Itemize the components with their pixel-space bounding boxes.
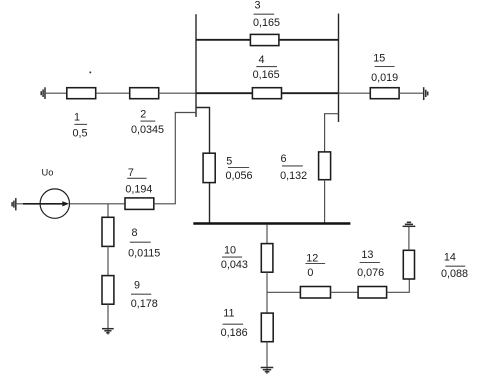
wire source to node, to R7: [70, 203, 126, 205]
svg-text:0,165: 0,165: [253, 17, 280, 29]
wire rail A to R3: [196, 39, 250, 41]
svg-text:0,043: 0,043: [221, 259, 248, 271]
resistor R3: [250, 34, 279, 45]
svg-text:5: 5: [226, 156, 232, 168]
svg-text:0,194: 0,194: [125, 184, 152, 196]
wire bus to R10: [266, 225, 268, 244]
label R2 value 2/0,0345: [131, 109, 164, 136]
svg-text:0,165: 0,165: [253, 69, 280, 81]
wire R4 to rail B: [282, 92, 339, 94]
wire rail A step down to R5: [196, 108, 210, 154]
wire R11 to ground G5: [266, 342, 268, 374]
svg-text:11: 11: [223, 308, 234, 320]
resistor R10: [261, 244, 273, 273]
wire G1 to R1: [45, 92, 67, 94]
svg-text:0,076: 0,076: [357, 267, 384, 279]
label R10 value 10/0,043: [221, 244, 248, 270]
ground G2 (right end, rotated): [424, 87, 428, 100]
label R5 value 5/0,056: [225, 156, 252, 182]
resistor R1: [67, 88, 96, 99]
resistor R12: [300, 287, 330, 299]
label R8 value 8/0,0115: [128, 227, 160, 260]
wire R15 to ground G2: [399, 92, 424, 94]
svg-text:10: 10: [224, 244, 236, 256]
stray dot: [89, 71, 91, 73]
label R3 value 3/0,165: [253, 0, 280, 29]
wire R6 to bus: [324, 180, 326, 223]
svg-text:9: 9: [134, 280, 140, 292]
label R9 value 9/0,178: [131, 280, 158, 310]
ground G4 (below R9): [102, 329, 114, 333]
source U0 (circle with arrow): [23, 189, 70, 218]
wire rail A to R4: [196, 92, 252, 94]
svg-text:0,132: 0,132: [280, 170, 307, 182]
label R1 value 1/0,5: [72, 112, 87, 140]
label R13 value 13/0,076: [357, 249, 384, 279]
svg-text:0,088: 0,088: [441, 268, 468, 280]
resistor R2: [130, 88, 159, 99]
wire R2 to rail A: [159, 92, 196, 94]
svg-text:14: 14: [444, 252, 456, 264]
wire R12 to R13: [331, 291, 359, 293]
ground G1 (left end of top line, rotated): [41, 87, 45, 99]
svg-text:2: 2: [140, 109, 146, 121]
svg-text:0,0345: 0,0345: [131, 124, 164, 136]
svg-text:6: 6: [280, 153, 286, 165]
resistor R15: [370, 88, 399, 99]
ground G3 (left of source U0, rotated): [12, 198, 16, 210]
svg-text:7: 7: [128, 167, 134, 179]
wire R10 to node C: [266, 272, 268, 313]
wire R9 to ground G4: [107, 304, 109, 334]
resistor R7: [125, 198, 154, 210]
svg-text:0,056: 0,056: [225, 170, 252, 182]
label R15 value 15/0,019: [371, 52, 398, 84]
svg-text:13: 13: [361, 249, 373, 261]
wire R1 to R2: [96, 92, 130, 94]
label R7 value 7/0,194: [125, 167, 152, 196]
svg-text:1: 1: [74, 112, 80, 124]
svg-text:0,178: 0,178: [131, 298, 158, 310]
wire R7 up-step to rail A: [154, 113, 196, 204]
svg-text:0,019: 0,019: [371, 72, 398, 84]
label R12 value 12/0: [305, 253, 325, 280]
wire node C to R12: [267, 291, 300, 293]
svg-text:15: 15: [373, 52, 385, 64]
svg-text:0,186: 0,186: [221, 327, 248, 339]
svg-text:Uo: Uo: [42, 168, 54, 178]
resistor R13: [358, 287, 387, 299]
label R6 value 6/0,132: [280, 153, 307, 182]
label R4 value 4/0,165: [253, 54, 280, 81]
wire R13 to R14: [387, 279, 410, 292]
node rail B (right vertical rail): [338, 14, 340, 122]
ground G5 (below R11): [261, 368, 274, 372]
svg-text:0: 0: [307, 267, 313, 279]
ground G6 (above R14, pointing up): [403, 222, 416, 226]
wire rail B to R15: [339, 92, 371, 94]
svg-text:12: 12: [306, 253, 318, 265]
svg-text:0,5: 0,5: [72, 128, 87, 140]
wire G3 to source: [16, 203, 40, 205]
resistor R11: [261, 313, 273, 342]
bus bar (thick node line): [193, 222, 350, 225]
resistor R4: [252, 88, 281, 99]
wire rail B step down to R6: [325, 114, 339, 152]
svg-text:8: 8: [131, 227, 137, 239]
label R14 value 14/0,088: [441, 252, 468, 280]
node rail A (left vertical rail): [195, 14, 197, 117]
wire R3 to rail B: [279, 39, 339, 41]
resistor R5: [203, 153, 215, 182]
svg-text:4: 4: [258, 54, 264, 66]
resistor R8: [102, 217, 114, 246]
wire R5 to bus: [209, 183, 211, 223]
svg-text:3: 3: [254, 0, 260, 12]
wire R8 to R9: [107, 246, 109, 275]
label R11 value 11/0,186: [221, 308, 248, 340]
wire R14 to ground G6: [408, 226, 410, 250]
wire node to R8: [107, 204, 109, 218]
resistor R6: [319, 152, 331, 180]
resistor R14: [403, 250, 414, 279]
resistor R9: [102, 276, 114, 305]
svg-text:0,0115: 0,0115: [128, 248, 160, 260]
